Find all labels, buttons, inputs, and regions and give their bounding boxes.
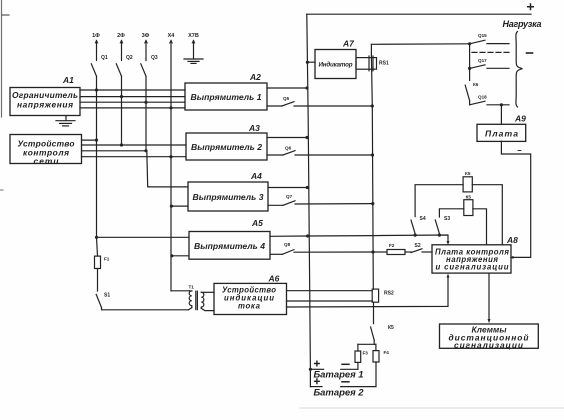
wire X4 to T1 primary top <box>171 290 190 292</box>
svg-text:S1: S1 <box>104 293 110 299</box>
svg-text:RS2: RS2 <box>384 291 394 297</box>
wire line2 A1 to A2 <box>80 96 185 98</box>
contact K6 <box>465 85 469 100</box>
svg-text:Q3: Q3 <box>151 55 158 61</box>
svg-text:Батарея 1: Батарея 1 <box>314 370 364 381</box>
rectifier A4 box <box>188 182 268 211</box>
svg-text:Батарея 2: Батарея 2 <box>314 388 365 399</box>
wire RS2 down to K5 <box>373 302 375 323</box>
node X4-A5feed <box>170 254 173 257</box>
battery1 plus sign <box>314 361 320 367</box>
wire phase3 drop to A4 <box>147 151 188 187</box>
switch Q6 <box>267 154 283 156</box>
arrow up into A8 bottom left <box>287 277 449 307</box>
relay coil K5a <box>463 177 472 192</box>
breaker Q2 blade <box>116 64 121 76</box>
load brace <box>516 32 523 108</box>
svg-text:А3: А3 <box>248 123 260 133</box>
bus minus vertical <box>371 44 373 289</box>
svg-text:F2: F2 <box>389 243 395 248</box>
switch Q17 <box>470 65 485 69</box>
battery2 plus bar <box>310 386 322 388</box>
svg-text:А8: А8 <box>506 235 518 245</box>
svg-text:Х7В: Х7В <box>188 33 199 39</box>
wire X4 to A4 input <box>171 205 188 207</box>
svg-text:Q15: Q15 <box>478 33 487 38</box>
scan artifact top-left dash <box>2 14 9 16</box>
svg-text:К5: К5 <box>388 325 394 331</box>
wire X7B stub <box>193 41 195 59</box>
terminals box (Klemmy) <box>440 324 539 348</box>
wire line8 monitor to A3 <box>82 156 187 158</box>
breaker Q3 blade <box>141 64 146 76</box>
dashed gang line <box>472 51 510 53</box>
wire line4 A1 to A2 <box>80 107 185 109</box>
svg-text:Q17: Q17 <box>478 58 487 63</box>
svg-text:Х4: Х4 <box>168 33 176 39</box>
contact K5 <box>371 327 375 340</box>
terminal 3F arrow <box>145 41 148 44</box>
node X4-line4 <box>169 106 172 109</box>
wire phase2 top <box>121 41 123 61</box>
top bus to load plus <box>307 13 531 15</box>
plate A9 box <box>477 124 526 141</box>
wire phase1 vertical to F1 <box>96 76 98 237</box>
svg-text:F1: F1 <box>104 257 110 262</box>
svg-text:S2: S2 <box>415 243 421 249</box>
terminal 2F arrow <box>120 41 123 44</box>
wire X4 to A5 input <box>172 255 189 257</box>
wire line7 monitor to phase3 <box>82 150 147 152</box>
svg-text:напряжения: напряжения <box>17 100 73 110</box>
node phase3-line7 <box>144 149 147 152</box>
minus bus top corner to load switches <box>371 43 469 46</box>
svg-text:К5: К5 <box>465 171 471 176</box>
svg-text:2Ф: 2Ф <box>117 33 125 39</box>
ground under A1 <box>65 116 67 121</box>
battery2 plus sign <box>314 378 320 384</box>
svg-text:А1: А1 <box>62 75 74 85</box>
node phase1-A5feed <box>95 236 98 239</box>
wire phase2 vertical <box>121 76 123 145</box>
battery1 plus bar <box>310 368 323 370</box>
transformer T1 secondary <box>201 292 204 308</box>
rectifier A3 box <box>186 133 267 160</box>
wire line3 A1 to A2 <box>80 101 185 103</box>
svg-text:тока: тока <box>238 302 261 311</box>
wire A9 to A8 right <box>501 141 530 257</box>
svg-text:А9: А9 <box>514 114 526 124</box>
wire A5 feed long <box>97 236 190 238</box>
svg-text:S4: S4 <box>420 216 426 222</box>
svg-text:А2: А2 <box>249 72 261 82</box>
rectifier A5 box <box>189 232 270 260</box>
svg-text:Q1: Q1 <box>101 55 108 61</box>
svg-text:1Ф: 1Ф <box>92 33 100 39</box>
svg-text:и сигнализации: и сигнализации <box>436 262 509 271</box>
scan artifact left edge <box>1 0 3 117</box>
node X4-line8 <box>169 155 172 158</box>
svg-text:Q7: Q7 <box>286 194 293 199</box>
svg-text:Плата: Плата <box>485 129 518 139</box>
wire line1 A1 to A2 <box>80 89 185 91</box>
svg-text:S3: S3 <box>444 216 450 222</box>
fuse F4 <box>375 344 377 350</box>
wire A2 plus output <box>267 87 307 89</box>
limiter A1 box <box>10 88 80 116</box>
breaker Q1 blade <box>91 64 96 76</box>
svg-text:Ограничитель: Ограничитель <box>12 90 78 100</box>
shunt RS1 <box>356 58 377 70</box>
svg-text:Выпрямитель 3: Выпрямитель 3 <box>193 192 264 202</box>
terminal 1F arrow <box>95 41 98 44</box>
fuse F1 <box>95 256 101 268</box>
wire phase3 vertical <box>145 76 147 151</box>
wire K5a left to S4 <box>415 185 463 217</box>
wire chain to K6 <box>469 68 471 80</box>
wire A4 plus output <box>268 187 307 189</box>
svg-text:Индикатор: Индикатор <box>319 62 353 69</box>
shunt RS2 <box>372 289 378 302</box>
svg-text:Т1: Т1 <box>189 285 195 290</box>
svg-text:RS1: RS1 <box>379 61 389 67</box>
svg-text:К5: К5 <box>466 195 472 200</box>
polarity tick near A9 wire <box>518 150 521 152</box>
wire A5 top output to S4 S3 and A8 <box>270 235 448 242</box>
ground X7B <box>184 58 203 60</box>
fuse F2 <box>373 251 387 253</box>
label plus load <box>527 3 534 10</box>
battery1 minus sign <box>341 363 349 365</box>
node X4-A4feed <box>170 205 173 208</box>
svg-text:Нагрузка: Нагрузка <box>503 19 542 29</box>
terminal X4 arrow <box>170 41 173 44</box>
wire line5 monitor to phase1 <box>82 139 97 141</box>
svg-text:сигнализации: сигнализации <box>454 340 523 350</box>
switch Q15 <box>470 40 485 44</box>
node phase1-line1 <box>95 88 98 91</box>
wire fuse bar <box>358 343 376 345</box>
rectifier A2 box <box>185 83 267 110</box>
arrow A8 down to terminals box <box>488 273 490 319</box>
svg-text:Q2: Q2 <box>126 55 133 61</box>
plate A8 box <box>432 245 511 273</box>
svg-text:А4: А4 <box>250 171 262 181</box>
wire line6 monitor to A3 <box>82 144 187 146</box>
wire Q18 to A9 <box>500 105 502 125</box>
wire K5a right to A8 <box>472 185 502 245</box>
node phase3-line3 <box>144 101 147 104</box>
arrow into A8 top <box>447 241 450 245</box>
fuse F3 <box>357 344 359 351</box>
wire A3 plus output <box>267 137 307 139</box>
svg-text:Q5: Q5 <box>283 96 290 101</box>
wire phase1 top <box>96 41 98 61</box>
svg-text:Q8: Q8 <box>284 242 291 247</box>
node phase1-line5 <box>95 139 98 142</box>
indicator A7 box <box>307 61 315 63</box>
svg-text:Выпрямитель 2: Выпрямитель 2 <box>191 142 262 152</box>
wire A6 to RS2 double line top <box>287 290 373 292</box>
scan artifact left tick <box>0 189 3 191</box>
switch Q5 <box>267 105 282 107</box>
transformer T1 core <box>195 291 197 309</box>
node plus battery1 <box>309 368 312 371</box>
wire K5b right to A8 <box>473 209 487 245</box>
relay coil K5b <box>464 200 473 216</box>
arrow into A8 right <box>510 256 514 259</box>
current indicator A6 box <box>214 283 287 314</box>
svg-text:Q18: Q18 <box>478 95 487 100</box>
wire phase3 top <box>145 41 147 61</box>
svg-text:F3: F3 <box>363 351 369 356</box>
svg-text:3Ф: 3Ф <box>142 33 150 39</box>
wire neutral X4 vertical <box>170 41 172 291</box>
transformer T1 primary <box>189 291 192 308</box>
switch S4 <box>411 220 415 234</box>
monitor box (Ustroystvo kontrolya seti) <box>10 135 82 164</box>
node plus A7 <box>306 61 309 64</box>
node load switch top <box>468 42 471 45</box>
battery1 minus bar <box>341 368 358 370</box>
load minus sign <box>527 52 533 54</box>
svg-text:А5: А5 <box>251 218 263 228</box>
switch Q7 <box>268 204 283 206</box>
switch S1 <box>96 294 101 307</box>
switch S3 <box>435 220 439 234</box>
svg-text:сети: сети <box>34 156 59 166</box>
scan artifact bottom faint line <box>300 407 564 409</box>
wire load switch chain <box>469 44 471 69</box>
svg-text:Выпрямитель 1: Выпрямитель 1 <box>191 92 262 102</box>
terminal X7B arrow <box>192 41 195 44</box>
svg-text:Q6: Q6 <box>285 146 292 151</box>
switch S2 <box>405 251 411 253</box>
node phase2-line2 <box>120 95 123 98</box>
bus plus vertical <box>307 14 311 386</box>
wire A6 to RS2 double line bottom <box>287 300 373 302</box>
switch Q18 <box>469 101 471 105</box>
svg-text:А6: А6 <box>268 274 280 284</box>
svg-text:Выпрямитель 4: Выпрямитель 4 <box>194 241 265 251</box>
svg-text:F4: F4 <box>384 350 390 355</box>
node phase2-line6 <box>120 143 123 146</box>
switch Q8 <box>270 253 282 255</box>
svg-text:К6: К6 <box>473 82 479 87</box>
svg-text:А7: А7 <box>342 39 355 49</box>
battery2 minus sign <box>341 381 349 383</box>
wire K5b left to S3 <box>439 209 463 217</box>
